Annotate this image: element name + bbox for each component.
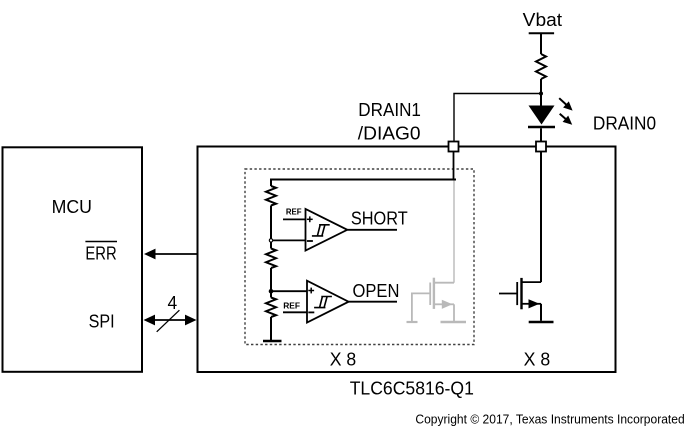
svg-text:ERR: ERR	[85, 244, 116, 264]
node A (open junction)	[269, 239, 272, 242]
power rail bar Vbat	[529, 32, 554, 34]
LED light arrow 1	[559, 98, 572, 110]
op-amp U1 SHORT comparator	[306, 209, 348, 251]
wire Vbat to R4	[540, 33, 542, 54]
wire SHORT output	[347, 229, 397, 231]
svg-text:X 8: X 8	[330, 349, 357, 369]
LED light arrow 2	[560, 114, 573, 125]
wire R3 to ground	[270, 317, 272, 341]
wire (grey) sense node down to Q1 drain	[453, 181, 455, 283]
resistor R2 (divider middle)	[266, 249, 276, 269]
wire LED cathode to pad DRAIN0	[540, 128, 542, 141]
wire pad DRAIN0 down to Q2 drain	[540, 152, 542, 283]
resistor R3 (divider bottom)	[266, 298, 276, 318]
svg-text:X 8: X 8	[524, 349, 551, 369]
device block TLC6C5816-Q1	[198, 147, 616, 399]
hysteresis symbol U2	[314, 297, 332, 308]
svg-text:DRAIN0: DRAIN0	[593, 114, 656, 134]
LED D1 triangle	[529, 106, 555, 125]
svg-text:REF: REF	[286, 207, 302, 217]
svg-text:REF: REF	[283, 301, 300, 311]
wire ERR with arrowhead into MCU	[144, 249, 198, 260]
wire REF input to OPEN comparator	[283, 311, 307, 313]
node B (junction dot)	[269, 289, 274, 294]
svg-text:MCU: MCU	[52, 197, 92, 217]
svg-text:TLC6C5816-Q1: TLC6C5816-Q1	[350, 379, 474, 399]
transistor Q1 (greyed-out NMOS, diag channel)	[407, 278, 467, 322]
dashed box (x8 replicated channel diagnostics)	[245, 169, 474, 345]
wire REF input to SHORT comparator	[283, 218, 306, 220]
pin pad DRAIN1/DIAG0	[449, 142, 459, 152]
svg-text:Copyright © 2017, Texas Instru: Copyright © 2017, Texas Instruments Inco…	[415, 411, 684, 426]
pin pad DRAIN0	[536, 142, 546, 152]
wire OPEN output	[349, 301, 397, 303]
svg-text:SPI: SPI	[89, 312, 115, 332]
resistor R1 (divider top)	[266, 186, 276, 206]
wire node B to OPEN comparator non-inverting input	[271, 290, 307, 292]
net ERR (active-low) label with overline	[85, 242, 117, 264]
wire pad DRAIN1 down to sense wire	[453, 152, 455, 181]
wire R1 to node A	[270, 206, 272, 249]
wire node A to SHORT comparator inverting input	[271, 239, 306, 241]
bus SPI bidirectional arrow	[144, 315, 197, 326]
wire R4 to LED anode	[540, 79, 542, 106]
transistor Q2 (output NMOS)	[499, 278, 554, 322]
resistor R4 (LED ballast)	[536, 54, 546, 79]
svg-text:DRAIN1: DRAIN1	[358, 100, 421, 120]
svg-text:Vbat: Vbat	[523, 10, 562, 30]
wire sense junction to pad DRAIN1	[454, 94, 541, 142]
bus width slash	[157, 310, 180, 332]
LED D1 cathode bar	[528, 126, 555, 129]
svg-text:/DIAG0: /DIAG0	[358, 124, 421, 144]
wire from sense node to resistor divider top	[271, 180, 456, 187]
hysteresis symbol U1	[312, 225, 330, 236]
svg-text:SHORT: SHORT	[351, 208, 408, 228]
ground (divider)	[263, 340, 282, 343]
svg-text:4: 4	[168, 293, 178, 313]
MCU block	[3, 147, 143, 371]
op-amp U2 OPEN comparator	[307, 281, 349, 323]
node sense junction dot	[539, 92, 543, 96]
wire R2 to node B	[270, 268, 272, 298]
svg-text:OPEN: OPEN	[353, 281, 400, 301]
